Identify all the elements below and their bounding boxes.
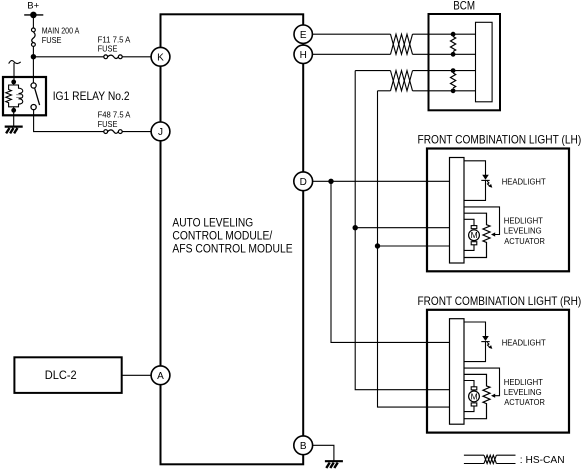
wire coil to ground	[13, 112, 15, 126]
svg-text:HEDLIGHT: HEDLIGHT	[504, 377, 543, 387]
connector RH lamp	[450, 319, 465, 425]
svg-text:E: E	[300, 30, 307, 41]
wire CAN-H vertical to lamps	[355, 71, 449, 390]
connector D	[294, 172, 313, 191]
wire CAN pair 2 upper	[355, 70, 475, 72]
wire D branch to RH headlight	[331, 181, 450, 342]
svg-text:ACTUATOR: ACTUATOR	[504, 236, 545, 246]
svg-text:DLC-2: DLC-2	[45, 370, 77, 382]
twisted pair E/H	[391, 34, 413, 54]
actuator LH wiper	[464, 207, 500, 235]
headlight LH wiring	[464, 161, 490, 201]
svg-text:IG1 RELAY No.2: IG1 RELAY No.2	[53, 91, 130, 103]
wire F48 fuse to J	[122, 131, 151, 133]
wire coil feed with tilde	[9, 61, 21, 80]
svg-text:HEADLIGHT: HEADLIGHT	[502, 177, 546, 187]
resistor CAN terminator 2	[451, 68, 456, 93]
svg-text:BCM: BCM	[453, 1, 475, 13]
twisted pair 2	[391, 71, 413, 91]
wire CAN-L vertical to lamps	[378, 91, 450, 407]
module box AUTO LEVELING CONTROL MODULE	[161, 14, 304, 464]
svg-text:HEDLIGHT: HEDLIGHT	[504, 216, 543, 226]
svg-text:HEADLIGHT: HEADLIGHT	[502, 338, 546, 348]
connector J	[151, 122, 170, 141]
headlight RH LED	[482, 336, 489, 341]
svg-text:J: J	[158, 127, 163, 138]
svg-text:AUTO LEVELING: AUTO LEVELING	[172, 218, 253, 230]
wire DLC-2 to A	[122, 374, 152, 376]
wire junction to F11 fuse	[33, 56, 103, 58]
connector H	[294, 45, 312, 63]
ground module B	[325, 461, 343, 468]
junction D	[328, 179, 333, 184]
svg-text:B: B	[300, 441, 307, 452]
svg-text:A: A	[157, 371, 164, 382]
ground relay coil	[5, 127, 23, 134]
svg-text:AFS CONTROL MODULE: AFS CONTROL MODULE	[172, 244, 292, 256]
wire D to LH headlight	[312, 180, 449, 182]
svg-text:FUSE: FUSE	[42, 35, 62, 45]
relay box IG1 RELAY No.2	[3, 77, 46, 115]
fuse MAIN 200 A	[32, 28, 36, 46]
svg-text:D: D	[300, 177, 307, 188]
wire MAIN fuse to junction to relay switch	[32, 46, 34, 83]
connector K	[151, 47, 170, 66]
connector E	[294, 25, 312, 43]
connector A	[151, 366, 170, 385]
svg-text:FUSE: FUSE	[98, 43, 118, 53]
wire E to BCM	[312, 33, 475, 35]
HS-CAN legend	[464, 455, 516, 463]
actuator LH potentiometer	[464, 213, 490, 257]
relay coil	[6, 82, 23, 110]
svg-text:H: H	[300, 50, 307, 61]
BCM box	[429, 14, 501, 110]
node B+	[24, 1, 43, 19]
svg-text:LEVELING: LEVELING	[504, 387, 542, 397]
svg-text:FRONT COMBINATION LIGHT (LH): FRONT COMBINATION LIGHT (LH)	[418, 133, 582, 147]
front combination light RH box	[427, 310, 569, 433]
relay switch	[31, 83, 40, 110]
svg-text:CONTROL MODULE/: CONTROL MODULE/	[172, 231, 273, 243]
junction CAN-L to LH	[375, 243, 380, 248]
svg-text:FUSE: FUSE	[98, 119, 118, 129]
svg-text:ACTUATOR: ACTUATOR	[504, 397, 545, 407]
actuator RH potentiometer	[464, 374, 490, 418]
actuator LH motor	[464, 219, 479, 250]
junction CAN-H to LH	[353, 225, 358, 230]
svg-text:M: M	[471, 230, 478, 240]
svg-text:LEVELING: LEVELING	[504, 226, 542, 236]
wire CAN pair 2 lower	[378, 90, 476, 92]
wire B+ to MAIN fuse	[32, 15, 34, 28]
wire F11 fuse to K	[122, 56, 151, 58]
DLC-2 box	[14, 357, 121, 393]
wire switch to F48 fuse	[34, 110, 104, 132]
junction node	[31, 54, 36, 59]
connector LH lamp	[450, 158, 465, 264]
fuse F11 7.5 A	[104, 55, 122, 59]
fuse F48 7.5 A	[104, 130, 122, 134]
actuator RH wiper	[464, 368, 500, 396]
headlight RH wiring	[464, 322, 490, 362]
BCM connector rect	[476, 22, 493, 102]
svg-text:FRONT COMBINATION LIGHT (RH): FRONT COMBINATION LIGHT (RH)	[418, 294, 582, 308]
resistor CAN terminator 1	[451, 32, 456, 57]
svg-text:K: K	[157, 52, 164, 63]
svg-text:: HS-CAN: : HS-CAN	[520, 455, 565, 466]
svg-text:B+: B+	[27, 1, 39, 12]
svg-text:M: M	[471, 391, 478, 401]
wire H to BCM	[312, 53, 475, 55]
connector B	[294, 436, 313, 455]
front combination light LH box	[427, 149, 569, 272]
headlight LH LED	[482, 175, 489, 180]
wire B to ground	[313, 445, 334, 461]
actuator RH motor	[464, 381, 479, 412]
